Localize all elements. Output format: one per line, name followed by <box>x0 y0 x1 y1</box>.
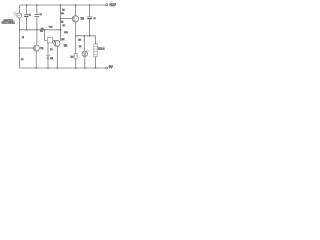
node base junction T1 <box>19 47 21 49</box>
diode D1 <box>47 55 50 58</box>
terminal +12V <box>106 4 108 6</box>
node R8 rail <box>75 67 77 69</box>
wire bottom 0V rail <box>20 67 106 69</box>
transistor TR2 <box>54 40 60 46</box>
svg-text:R8: R8 <box>71 56 75 58</box>
wire emitter horizontal <box>76 35 96 37</box>
svg-text:R4: R4 <box>50 49 53 51</box>
node C2 signal <box>36 29 38 31</box>
capacitor C4 branch <box>89 5 91 36</box>
node rail T3 <box>75 4 77 6</box>
svg-text:C3: C3 <box>49 27 53 29</box>
wire LED to rail <box>84 57 86 68</box>
svg-text:C4: C4 <box>93 18 96 20</box>
svg-text:0V: 0V <box>109 65 114 69</box>
wire base T1 <box>20 47 35 49</box>
svg-text:1k: 1k <box>61 13 64 15</box>
wire base T3 <box>61 17 74 19</box>
svg-text:CELL ORP12: CELL ORP12 <box>2 23 16 25</box>
resistor R8 box <box>74 54 77 59</box>
node C1 rail <box>26 4 28 6</box>
wire signal line <box>20 29 61 31</box>
wire signal to R4 box <box>45 30 48 41</box>
transistor TR1 <box>33 45 39 51</box>
svg-text:C2: C2 <box>40 14 43 16</box>
node signal end <box>60 29 62 31</box>
photocell PCC1 <box>17 13 22 18</box>
node C2 rail <box>36 4 38 6</box>
wire emitter T1 to rail <box>35 51 37 68</box>
svg-text:D2: D2 <box>79 46 82 48</box>
wire relay top <box>95 36 97 44</box>
svg-text:TR1: TR1 <box>40 48 44 50</box>
wire relay bottom <box>95 57 97 68</box>
svg-text:TR2: TR2 <box>64 46 68 48</box>
node C1 signal <box>26 29 28 31</box>
node relay rail <box>95 67 97 69</box>
svg-text:R5: R5 <box>62 10 65 12</box>
node emitter junction <box>75 35 77 37</box>
node LED junction <box>84 35 86 37</box>
wire photocell down to bottom rail <box>19 18 21 68</box>
svg-text:D1: D1 <box>50 58 54 60</box>
wire left drop from rail to photocell <box>19 5 21 13</box>
diode D1 branch <box>47 43 49 68</box>
transistor TR3 <box>72 16 78 22</box>
node rail <box>60 4 62 6</box>
svg-text:10k: 10k <box>64 32 68 34</box>
wire T3 emitter down <box>75 22 77 54</box>
node C4 rail <box>89 4 91 6</box>
node C4 bottom <box>89 35 91 37</box>
svg-text:4k7: 4k7 <box>61 39 65 41</box>
svg-text:R2: R2 <box>21 59 24 61</box>
svg-text:R1: R1 <box>22 37 24 39</box>
relay coil RLA1 <box>94 44 97 57</box>
terminal 0V <box>106 67 108 69</box>
wire R8 to rail <box>75 59 77 68</box>
wire top supply rail <box>20 4 106 6</box>
capacitor C4 <box>87 16 92 18</box>
svg-text:C1: C1 <box>29 14 32 16</box>
svg-text:R9: R9 <box>78 40 81 42</box>
capacitor C1 <box>24 14 28 16</box>
node T1 emitter rail <box>35 67 37 69</box>
capacitor C1 branch <box>26 5 28 30</box>
svg-text:1k5: 1k5 <box>40 31 44 33</box>
svg-text:+12V: +12V <box>109 3 116 7</box>
wire box to T2 base <box>53 39 55 41</box>
capacitor C2 branch <box>36 5 38 30</box>
wire T2 collector chain from rail <box>60 5 62 41</box>
svg-text:TR3: TR3 <box>81 19 85 21</box>
node T2 emitter rail <box>57 67 59 69</box>
wire collector T3 from rail <box>75 5 77 16</box>
node T3 base junction <box>60 18 62 20</box>
LED D2 <box>82 51 87 56</box>
resistor R4 box <box>47 37 52 43</box>
node LED rail <box>84 67 86 69</box>
wire C2 line to T1 collector <box>36 30 38 46</box>
node <box>44 29 45 30</box>
svg-text:RLA 1: RLA 1 <box>98 48 105 51</box>
wire LED drop <box>83 36 85 52</box>
node D1 rail <box>47 67 49 69</box>
svg-text:R6: R6 <box>61 22 64 24</box>
capacitor C2 <box>35 15 40 17</box>
svg-text:4k: 4k <box>63 25 66 27</box>
node signal/photocell junction <box>19 29 21 31</box>
light arrows <box>13 11 17 15</box>
wire T2 emitter <box>56 46 58 68</box>
